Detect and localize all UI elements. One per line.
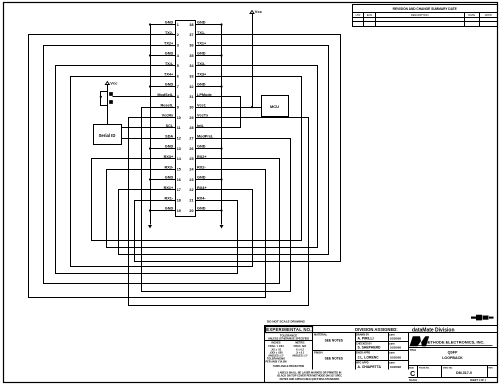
left bus ground arrow <box>148 225 152 229</box>
pin 21 stub (RX4-) <box>196 200 201 202</box>
junction left bus row 19 <box>149 209 151 211</box>
svg-text:35: 35 <box>189 54 193 58</box>
pin 33 stub (TX3+) <box>196 76 201 78</box>
svg-text:TX4+: TX4+ <box>164 72 174 76</box>
pin 31 stub (LPMode) <box>196 96 201 98</box>
pin 2 stub (TX2-) <box>171 34 176 36</box>
pin 37 stub (TX1-) <box>196 34 201 36</box>
svg-text:10/20/08: 10/20/08 <box>390 356 401 360</box>
svg-text:36: 36 <box>189 44 193 48</box>
wire ResetL pin9 loop to ModPrsL pin27 <box>142 108 291 292</box>
fscm cell <box>441 366 443 378</box>
wire GND pin 32 to right bus <box>196 86 222 88</box>
pin 6 stub (TX4+) <box>171 76 176 78</box>
pin 18 stub (RX1-) <box>171 200 176 202</box>
svg-text:5: 5 <box>177 64 179 68</box>
svg-text:Vcc: Vcc <box>110 80 118 85</box>
wire pullup to ModSelL pin8 <box>113 96 176 98</box>
loopback wire TX4- pin5 to RX4- pin21 <box>56 66 238 274</box>
loopback wire TX3- pin34 to RX3- pin15 <box>107 66 318 248</box>
svg-text:38: 38 <box>189 23 193 27</box>
svg-text:SIZE: SIZE <box>409 367 414 369</box>
svg-text:QSFP: QSFP <box>448 351 458 355</box>
svg-text:13: 13 <box>177 147 181 151</box>
svg-text:TX3+: TX3+ <box>197 72 207 76</box>
svg-text:REVISION AND CHANGE SUMMARY DA: REVISION AND CHANGE SUMMARY DATE <box>393 7 457 11</box>
svg-text:DESCRIPTION: DESCRIPTION <box>411 13 429 17</box>
loopback wire TX2- pin2 to RX2- pin24 <box>29 35 266 298</box>
svg-text:Serial ID: Serial ID <box>99 133 116 138</box>
pin 14 stub (RX3+) <box>171 158 176 160</box>
svg-text:DATE: DATE <box>389 352 395 355</box>
wire VccRx pin10 loop to VccTx pin29 <box>129 118 309 306</box>
svg-text:A. CHIAPETTA: A. CHIAPETTA <box>358 365 382 369</box>
pin 36 stub (TX1+) <box>196 45 201 47</box>
svg-text:ECN: ECN <box>367 13 373 17</box>
svg-text:DATE: DATE <box>468 13 475 17</box>
junction right bus row 7 <box>220 85 222 87</box>
svg-text:10: 10 <box>177 116 181 120</box>
svg-text:METHODE ELECTRONICS, INC.: METHODE ELECTRONICS, INC. <box>424 340 484 345</box>
loopback wire TX1+ pin36 to RX1+ pin17 <box>119 46 329 255</box>
svg-text:RX1-: RX1- <box>165 196 174 200</box>
svg-text:MATERIAL: MATERIAL <box>314 333 328 337</box>
svg-text:RX2-: RX2- <box>197 165 206 169</box>
names row line 1 <box>356 341 409 343</box>
junction right bus row 19 <box>220 209 222 211</box>
revision table column header row <box>353 17 498 19</box>
svg-text:MFG APPD: MFG APPD <box>356 362 369 365</box>
pin 15 stub (RX3-) <box>171 169 176 171</box>
pin 34 stub (TX3-) <box>196 65 201 67</box>
revision table frame <box>353 5 498 27</box>
svg-text:22: 22 <box>189 188 193 192</box>
svg-text:SCALE: SCALE <box>409 379 418 382</box>
svg-text:26: 26 <box>189 147 193 151</box>
svg-text:DIVISION ASSIGNED:: DIVISION ASSIGNED: <box>355 327 398 332</box>
names column <box>388 333 390 370</box>
pin 4 stub (GND) <box>171 55 176 57</box>
loopback wire TX3+ pin33 to RX3+ pin14 <box>92 77 302 241</box>
svg-text:Vcc: Vcc <box>255 9 263 14</box>
pin 5 stub (TX4-) <box>171 65 176 67</box>
pin 22 stub (RX4+) <box>196 189 201 191</box>
left GND bus wire <box>150 25 152 225</box>
svg-text:RX3-: RX3- <box>165 165 174 169</box>
svg-text:27: 27 <box>189 137 193 141</box>
pin 19 stub (GND) <box>171 210 176 212</box>
wire Vcc1 pin30 to MCU <box>196 107 262 109</box>
pin 27 stub (ModPrsL) <box>196 138 201 140</box>
pin 32 stub (GND) <box>196 86 201 88</box>
wire GND pin 19 to left bus <box>151 210 176 212</box>
right GND bus wire <box>221 25 223 225</box>
Vcc symbol at pullup network <box>105 82 109 85</box>
svg-text:DWG NO.: DWG NO. <box>443 367 453 369</box>
svg-text:23: 23 <box>189 178 193 182</box>
svg-text:17: 17 <box>177 188 181 192</box>
names row line 2 <box>356 350 409 352</box>
wire GND pin 35 to right bus <box>196 55 222 57</box>
pin 30 stub (Vcc1) <box>196 107 201 109</box>
pin 38 stub (GND) <box>196 24 201 26</box>
right bus ground arrow <box>220 225 224 229</box>
wire GND pin 23 to right bus <box>196 179 222 181</box>
wire GND pin 13 to left bus <box>151 148 176 150</box>
svg-text:S. SHEPHERD: S. SHEPHERD <box>358 346 382 350</box>
svg-text:29: 29 <box>189 116 193 120</box>
svg-text:INCHES: INCHES <box>271 341 280 344</box>
svg-text:6: 6 <box>177 75 179 79</box>
junction left bus row 1 <box>149 23 151 25</box>
svg-text:10/20/08: 10/20/08 <box>390 365 401 369</box>
pin 9 stub (ResetL) <box>171 107 176 109</box>
resistor network RN1 bracket <box>101 92 108 106</box>
connector icon above title block <box>471 315 482 321</box>
junction left bus row 16 <box>149 178 151 180</box>
Vcc symbol top <box>250 11 254 14</box>
junction pullup bracket <box>100 96 102 98</box>
wire GND pin 38 to right bus <box>196 24 222 26</box>
svg-text:37: 37 <box>189 33 193 37</box>
wire Vcc rail down to Vcc1 <box>252 14 254 108</box>
pin 23 stub (GND) <box>196 179 201 181</box>
pin 28 stub (IntL) <box>196 127 201 129</box>
svg-text:PER ANSI Y14.5M: PER ANSI Y14.5M <box>266 361 287 364</box>
junction right bus row 16 <box>220 178 222 180</box>
svg-text:DATE: DATE <box>389 362 395 365</box>
svg-text:THIRD ANGLE PROJECTION: THIRD ANGLE PROJECTION <box>273 365 305 368</box>
pin 11 stub (SCL) <box>171 127 176 129</box>
rev cell <box>487 366 489 378</box>
title block header row line <box>265 332 498 334</box>
svg-text:19: 19 <box>177 209 181 213</box>
svg-text:32: 32 <box>189 85 193 89</box>
svg-text:EXPERIMENTAL NO.: EXPERIMENTAL NO. <box>266 327 311 332</box>
svg-text:A. PIRILLI: A. PIRILLI <box>358 337 374 341</box>
svg-text:20: 20 <box>189 209 193 213</box>
QSFP connector J1 body <box>176 21 196 217</box>
pin 13 stub (GND) <box>171 148 176 150</box>
svg-text:Vcc1: Vcc1 <box>197 103 206 107</box>
title block frame <box>265 326 498 383</box>
wire LPMode pin31 to IntL pin28 bracket <box>196 97 241 128</box>
svg-text:SHEET 1 OF 1: SHEET 1 OF 1 <box>470 379 487 382</box>
svg-text:UNLESS OTHERWISE SPECIFIED: UNLESS OTHERWISE SPECIFIED <box>268 336 309 340</box>
svg-text:ModPrsL: ModPrsL <box>197 134 214 138</box>
svg-text:16: 16 <box>177 178 181 182</box>
svg-text:9: 9 <box>177 106 179 110</box>
svg-text:11: 11 <box>177 126 181 130</box>
svg-text:NOTES AND APPLICABLE QSFP MSA: NOTES AND APPLICABLE QSFP MSA STANDARD. <box>280 378 340 381</box>
svg-text:ANGLES ± 2°: ANGLES ± 2° <box>292 355 308 358</box>
svg-text:3: 3 <box>177 44 179 48</box>
svg-text:10/20/08: 10/20/08 <box>390 337 401 341</box>
svg-text:APPD: APPD <box>485 13 492 17</box>
resistor RN1 element a <box>110 93 113 96</box>
pin 35 stub (GND) <box>196 55 201 57</box>
wire Vcc down to Serial ID <box>107 85 109 125</box>
junction right bus row 4 <box>220 54 222 56</box>
pin 1 stub (GND) <box>171 24 176 26</box>
wire Serial ID to SDA pin12 <box>122 138 176 140</box>
pin 24 stub (RX2-) <box>196 169 201 171</box>
MCU U2 box <box>262 96 289 117</box>
pin 10 stub (VccRx) <box>171 117 176 119</box>
pin 7 stub (GND) <box>171 86 176 88</box>
pin 20 stub (GND) <box>196 210 201 212</box>
svg-text:J.L. LORENC: J.L. LORENC <box>358 356 380 360</box>
junction left bus row 4 <box>149 54 151 56</box>
svg-text:SEE NOTES: SEE NOTES <box>325 339 343 343</box>
wire GND pin 7 to left bus <box>151 86 176 88</box>
svg-text:SDA: SDA <box>165 134 173 138</box>
pin 8 stub (ModSelL) <box>171 96 176 98</box>
revision table header band <box>353 12 498 14</box>
svg-text:TX2+: TX2+ <box>164 41 174 45</box>
methode logo <box>410 336 430 346</box>
names row line 3 <box>356 360 409 362</box>
svg-text:SEE NOTES: SEE NOTES <box>325 357 343 361</box>
svg-text:15: 15 <box>177 168 181 172</box>
pin 17 stub (RX1+) <box>171 189 176 191</box>
logo cell bottom line <box>409 347 498 349</box>
svg-text:DM-317-0: DM-317-0 <box>456 371 472 375</box>
svg-text:LTR: LTR <box>356 13 361 17</box>
pin 26 stub (GND) <box>196 148 201 150</box>
svg-text:ResetL: ResetL <box>161 103 174 107</box>
svg-text:LOOPBACK: LOOPBACK <box>442 356 463 360</box>
svg-text:12: 12 <box>177 137 181 141</box>
loopback wire TX1- pin37 to RX1- pin18 <box>135 35 341 262</box>
svg-text:dataMate Division: dataMate Division <box>412 327 455 333</box>
svg-text:C: C <box>410 371 415 378</box>
svg-text:MCU: MCU <box>270 104 279 109</box>
tolerance block cell <box>312 333 314 370</box>
junction left bus row 13 <box>149 147 151 149</box>
resistor RN1 element b <box>110 101 113 104</box>
svg-text:7: 7 <box>177 85 179 89</box>
svg-text:FSCM NO.: FSCM NO. <box>419 367 430 369</box>
svg-text:RX4-: RX4- <box>197 196 206 200</box>
svg-text:28: 28 <box>189 126 193 130</box>
junction left bus row 7 <box>149 85 151 87</box>
svg-text:2: 2 <box>177 33 179 37</box>
pin 25 stub (RX2+) <box>196 158 201 160</box>
svg-text:FINISH: FINISH <box>314 351 323 355</box>
loopback wire TX2+ pin3 to RX2+ pin25 <box>44 46 280 284</box>
junction Vcc / Vcc1 <box>251 106 253 108</box>
svg-text:30: 30 <box>189 106 193 110</box>
svg-text:TX1+: TX1+ <box>197 41 207 45</box>
svg-text:1: 1 <box>177 23 179 27</box>
svg-text:31: 31 <box>189 95 193 99</box>
wire GND pin 20 to right bus <box>196 210 222 212</box>
wire GND pin 16 to left bus <box>151 179 176 181</box>
svg-text:25: 25 <box>189 157 193 161</box>
svg-text:DO NOT SCALE DRAWING: DO NOT SCALE DRAWING <box>267 320 306 324</box>
svg-text:REV: REV <box>489 367 494 369</box>
svg-text:ENGR APPD: ENGR APPD <box>356 352 370 355</box>
junction right bus row 13 <box>220 147 222 149</box>
Serial ID U1 box <box>94 125 122 145</box>
size cell <box>417 366 419 378</box>
pin 3 stub (TX2+) <box>171 45 176 47</box>
pin 29 stub (VccTx) <box>196 117 201 119</box>
svg-text:33: 33 <box>189 75 193 79</box>
wire GND pin 1 to left bus <box>151 24 176 26</box>
wire GND pin 26 to right bus <box>196 148 222 150</box>
loopback wire TX4+ pin6 to RX4+ pin22 <box>71 77 253 267</box>
scale row <box>409 377 498 379</box>
material cell <box>355 333 357 370</box>
wire Serial ID to SCL pin11 <box>122 127 176 129</box>
pin 12 stub (SDA) <box>171 138 176 140</box>
wire GND pin 4 to left bus <box>151 55 176 57</box>
svg-text:METRIC: METRIC <box>295 341 304 344</box>
experimental no. cell <box>266 327 313 333</box>
pin 16 stub (GND) <box>171 179 176 181</box>
svg-text:8: 8 <box>177 95 179 99</box>
junction right bus row 1 <box>220 23 222 25</box>
svg-text:10/20/08: 10/20/08 <box>390 346 401 350</box>
svg-text:18: 18 <box>177 199 181 203</box>
svg-text:21: 21 <box>189 199 193 203</box>
svg-text:TITLE: TITLE <box>410 349 417 352</box>
